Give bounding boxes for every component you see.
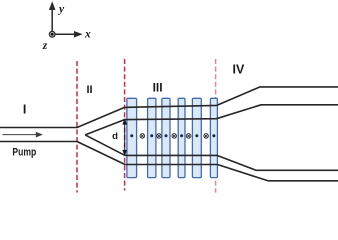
svg-text:III: III (153, 80, 163, 94)
svg-text:II: II (86, 84, 92, 96)
svg-text:I: I (23, 102, 26, 116)
svg-text:d: d (112, 131, 118, 142)
svg-text:Pump: Pump (12, 147, 36, 159)
svg-text:y: y (57, 3, 65, 15)
svg-text:IV: IV (232, 62, 244, 76)
svg-text:z: z (42, 40, 48, 52)
svg-text:x: x (84, 29, 91, 41)
